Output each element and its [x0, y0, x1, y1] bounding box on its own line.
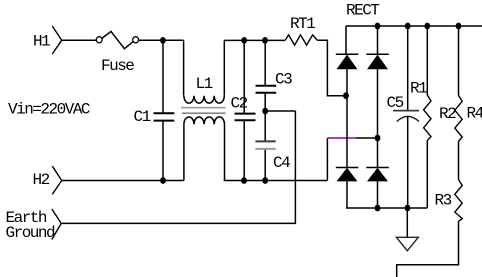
svg-text:R3: R3 [435, 192, 452, 210]
svg-text:Vin=220VAC: Vin=220VAC [8, 101, 90, 119]
svg-text:R1: R1 [410, 80, 427, 98]
svg-text:H1: H1 [33, 33, 50, 51]
svg-text:C5: C5 [387, 94, 404, 112]
svg-text:C2: C2 [231, 95, 248, 113]
svg-text:RECT: RECT [346, 2, 379, 20]
svg-text:C4: C4 [273, 154, 290, 172]
svg-text:C3: C3 [275, 71, 292, 89]
svg-text:Ground: Ground [6, 224, 56, 242]
svg-text:R4: R4 [467, 105, 482, 123]
svg-text:RT1: RT1 [290, 15, 315, 33]
svg-text:R2: R2 [439, 105, 456, 123]
svg-text:C1: C1 [134, 108, 151, 126]
svg-text:Fuse: Fuse [101, 57, 134, 75]
svg-text:L1: L1 [196, 75, 213, 93]
svg-text:H2: H2 [33, 171, 50, 189]
